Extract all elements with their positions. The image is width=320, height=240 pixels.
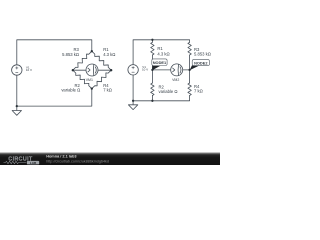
svg-text:4.3 kΩ: 4.3 kΩ <box>103 52 115 57</box>
svg-text:R1: R1 <box>157 46 163 51</box>
svg-text:4.3 kΩ: 4.3 kΩ <box>157 51 169 56</box>
svg-text:7 kΩ: 7 kΩ <box>194 89 203 94</box>
svg-text:LAB: LAB <box>30 161 37 165</box>
svg-text:10 V: 10 V <box>26 68 32 72</box>
svg-text:VM1: VM1 <box>86 78 93 82</box>
svg-text:VM2: VM2 <box>172 78 179 82</box>
svg-text:5.853 kΩ: 5.853 kΩ <box>62 52 79 57</box>
svg-text:NODE2: NODE2 <box>194 60 208 65</box>
svg-text:variable Ω: variable Ω <box>61 88 80 93</box>
svg-text:variable Ω: variable Ω <box>159 89 178 94</box>
svg-text:http://circuitlab.com/c/uk886k: http://circuitlab.com/c/uk886kmdg64kd <box>46 160 109 164</box>
svg-text:Homna / 2.1 lab3: Homna / 2.1 lab3 <box>46 155 76 159</box>
svg-text:7 kΩ: 7 kΩ <box>103 88 112 93</box>
svg-text:5.853 kΩ: 5.853 kΩ <box>194 52 211 57</box>
svg-text:NODE1: NODE1 <box>153 60 167 65</box>
svg-text:10 V: 10 V <box>142 68 148 72</box>
